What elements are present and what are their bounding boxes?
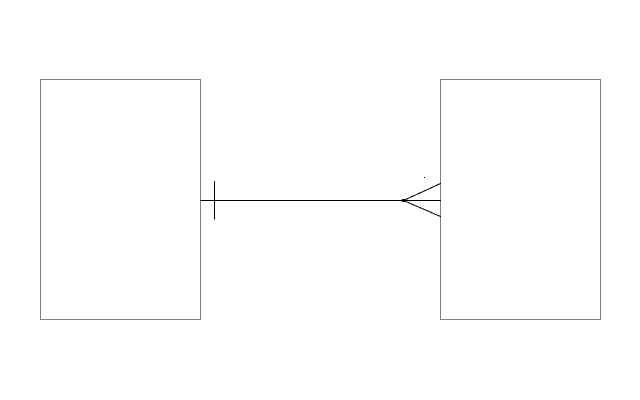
relationship wire [201, 200, 441, 202]
junction nub: wire meets entity border [440, 200, 441, 201]
junction nub: lower prong meets entity border [440, 216, 441, 217]
crow's foot upper prong [404, 184, 441, 201]
entity box left [41, 80, 201, 320]
one-cardinality tick [214, 181, 216, 220]
stray pixel dot [424, 177, 425, 178]
junction nub: upper prong meets entity border [440, 183, 441, 184]
crow's foot apex junction dot [402, 199, 405, 202]
entity box right [441, 80, 601, 320]
crow's foot lower prong [404, 201, 441, 217]
